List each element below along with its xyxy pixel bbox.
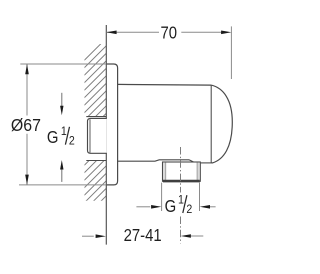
dimension Ø67 line <box>26 64 28 185</box>
outlet shoulder chamfer <box>189 160 200 166</box>
outlet G1/2 extension lines <box>162 183 200 211</box>
svg-text:1: 1 <box>178 194 184 207</box>
svg-text:2: 2 <box>69 135 75 148</box>
outlet G1/2 label <box>165 194 193 216</box>
flange (escutcheon) <box>106 64 117 185</box>
dimension 70 line <box>106 31 222 33</box>
rear port G1/2 up arrow <box>61 168 63 182</box>
rear port G1/2 label <box>47 126 75 148</box>
dome cap bulge <box>211 85 232 163</box>
dome body top edge <box>118 83 212 86</box>
wall face line <box>105 25 107 245</box>
svg-text:2: 2 <box>186 203 192 216</box>
rear union bushing <box>88 118 107 153</box>
svg-text:27-41: 27-41 <box>124 226 162 245</box>
rear port G1/2 down arrow <box>61 93 63 108</box>
dimension 27-41 line <box>82 235 94 237</box>
dimension Ø67 arrowheads <box>25 64 29 74</box>
svg-text:G: G <box>47 128 59 147</box>
svg-text:1: 1 <box>61 126 67 139</box>
outlet centerline <box>180 147 182 193</box>
wall hatching <box>0 40 262 235</box>
dome cap tangent edge <box>210 85 212 163</box>
svg-text:G: G <box>165 197 177 216</box>
dimension 70 arrowheads <box>106 31 116 35</box>
dimension Ø67 extension lines <box>19 64 106 185</box>
dimension 70 extension line right <box>230 26 232 79</box>
wall hole top line <box>86 116 106 118</box>
outlet G1/2 dimension arrows <box>136 206 150 208</box>
svg-text:Ø67: Ø67 <box>11 115 41 135</box>
outlet nipple G1/2 <box>163 162 201 181</box>
svg-text:70: 70 <box>161 23 178 42</box>
dome bottom left edge <box>118 160 189 161</box>
dome bottom right edge <box>201 162 212 164</box>
wall hole bottom line <box>86 160 106 162</box>
